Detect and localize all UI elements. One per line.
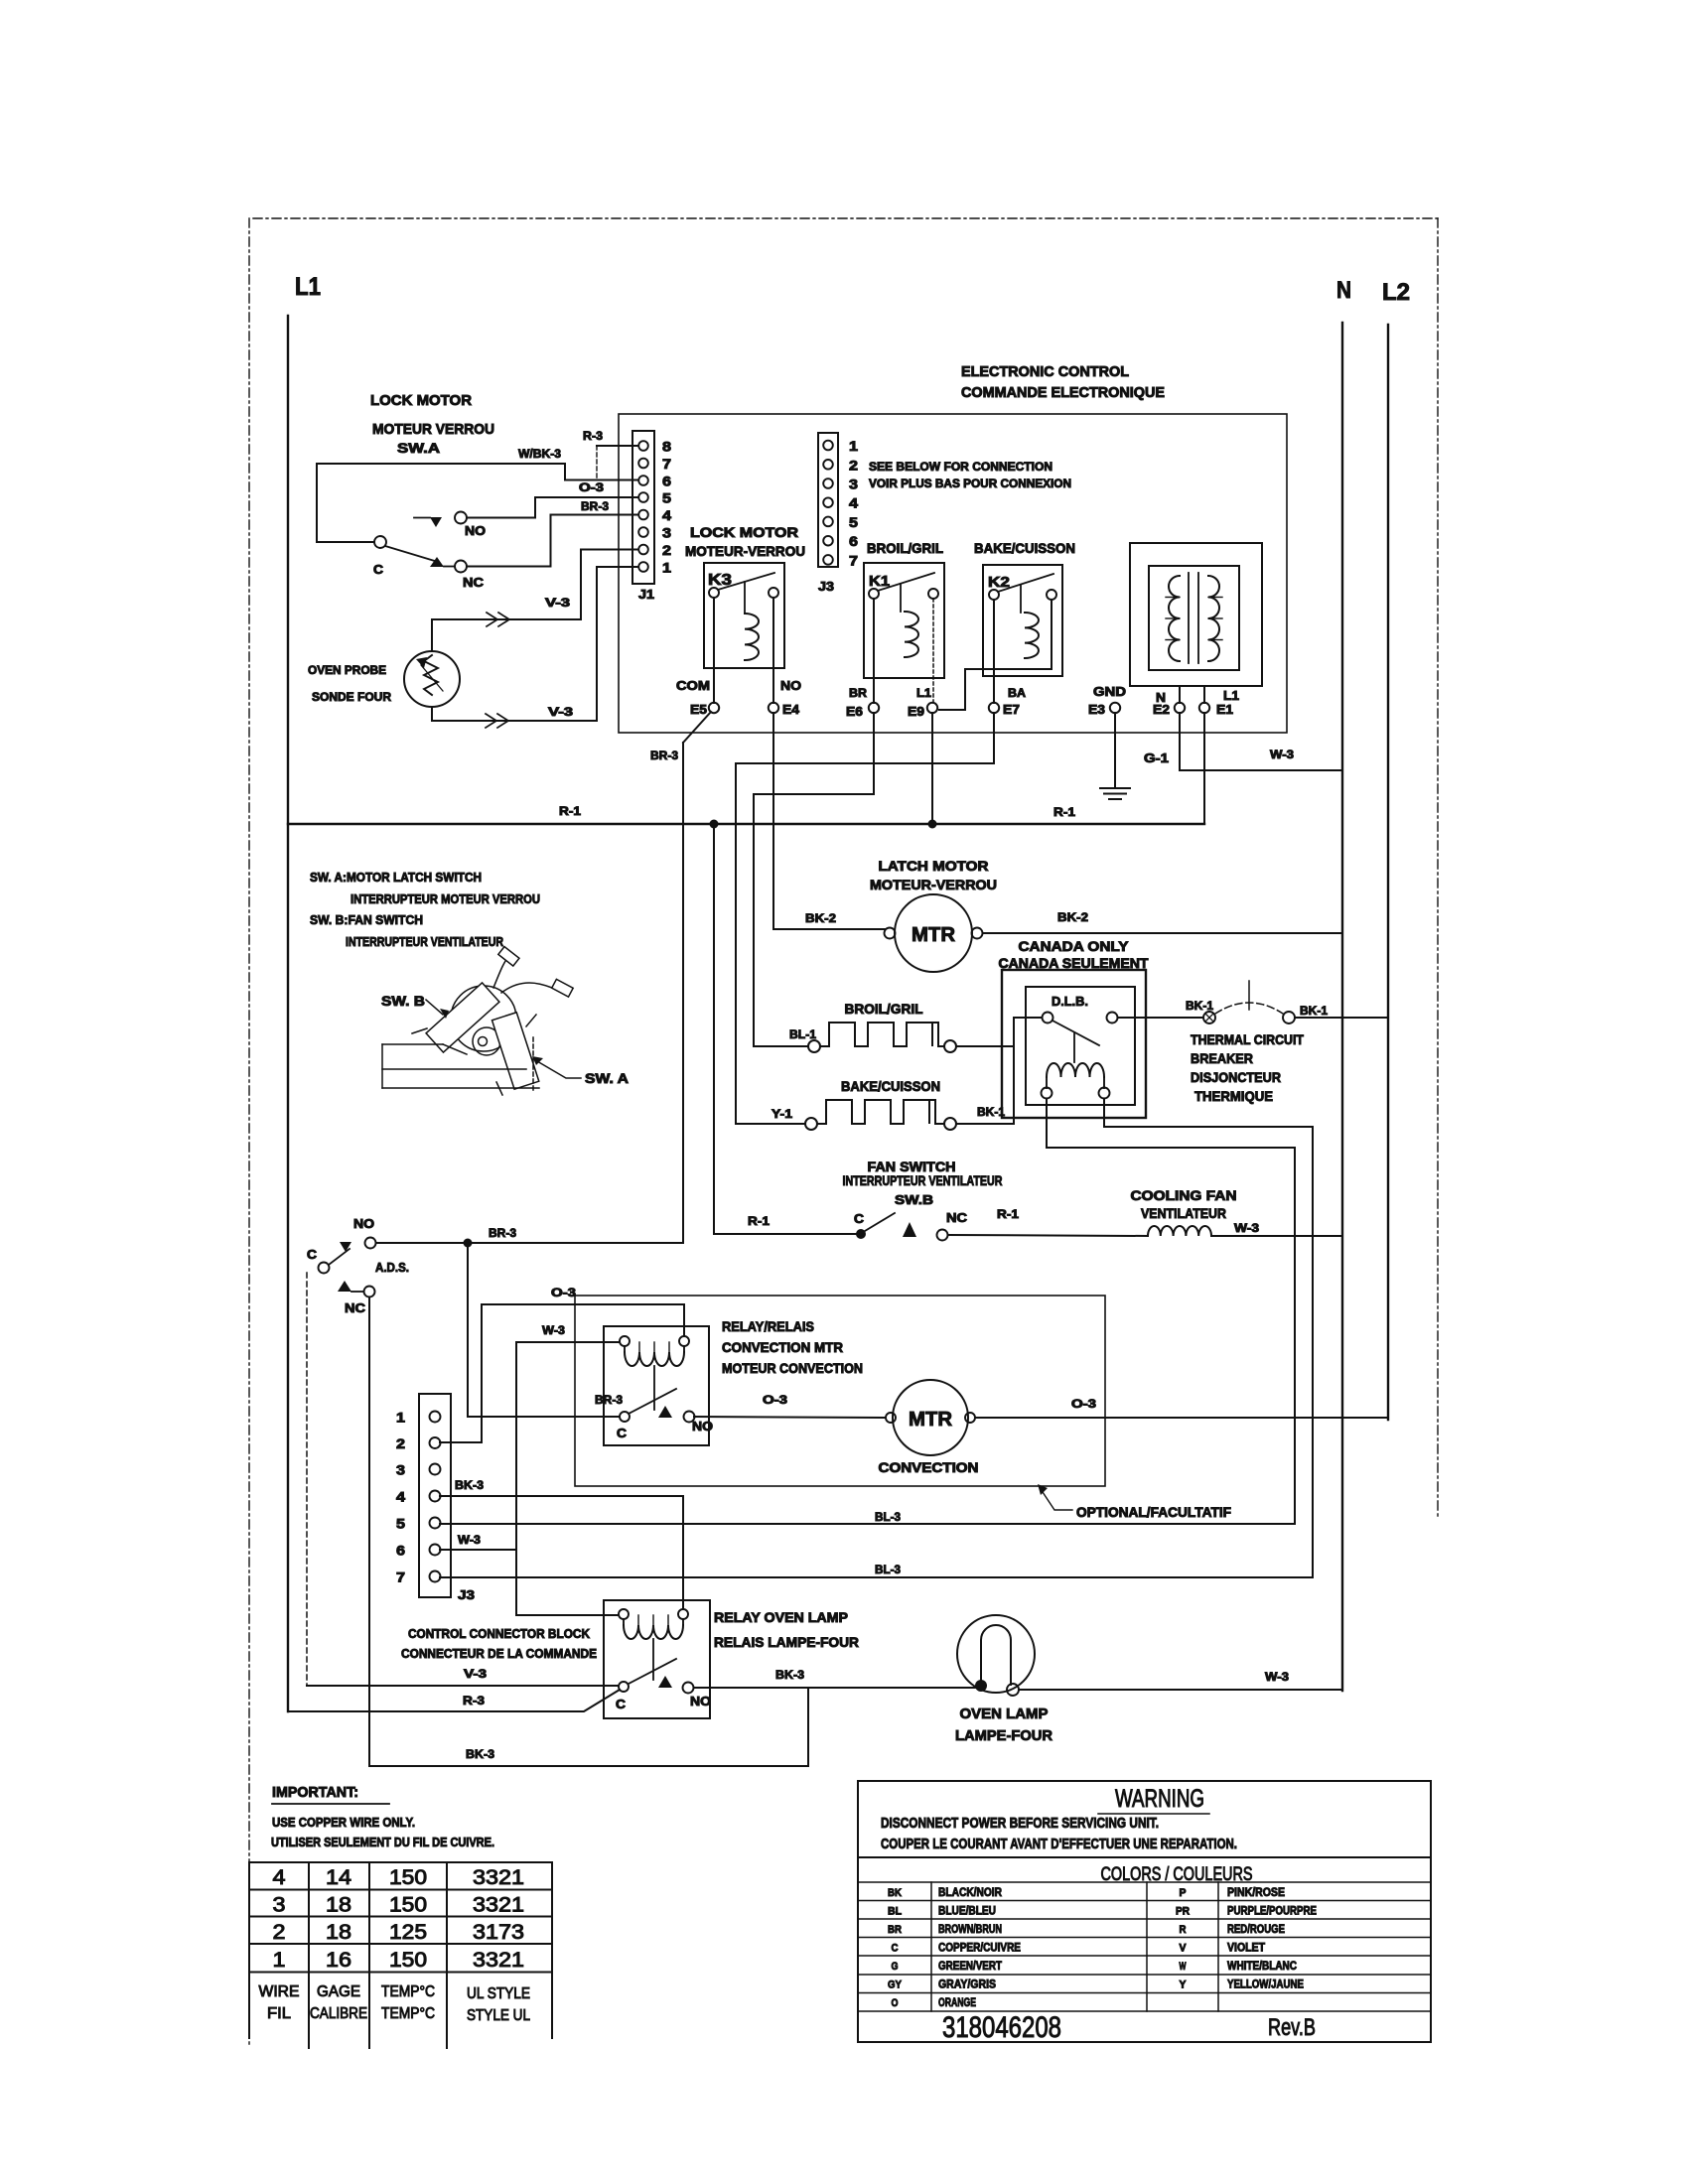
svg-text:NC: NC	[463, 575, 485, 590]
svg-text:RED/ROUGE: RED/ROUGE	[1227, 1922, 1285, 1936]
svg-text:2: 2	[662, 542, 671, 558]
wire transformer to E2	[1179, 686, 1181, 703]
svg-text:6: 6	[849, 533, 858, 549]
svg-text:MOTEUR-VERROU: MOTEUR-VERROU	[870, 877, 997, 892]
svg-text:COUPER LE COURANT AVANT D'EFFE: COUPER LE COURANT AVANT D'EFFECTUER UNE …	[881, 1836, 1237, 1852]
drawing latch assembly (pictorial)	[382, 947, 573, 1095]
wire BL-3 DLB coil right to connector pin 7	[440, 1099, 1313, 1577]
svg-text:V-3: V-3	[548, 705, 573, 719]
svg-text:THERMIQUE: THERMIQUE	[1194, 1088, 1273, 1104]
svg-text:BROWN/BRUN: BROWN/BRUN	[938, 1922, 1002, 1936]
svg-text:RELAY/RELAIS: RELAY/RELAIS	[722, 1318, 814, 1334]
svg-text:STYLE UL: STYLE UL	[467, 2007, 530, 2024]
wire W-3 E2 to N bus	[1180, 713, 1342, 770]
svg-text:W/BK-3: W/BK-3	[518, 447, 561, 461]
svg-text:18: 18	[326, 1921, 351, 1944]
page border (dash-dot frame)	[253, 217, 1438, 219]
svg-text:N: N	[1336, 277, 1351, 304]
wire K3 COM to E5	[713, 598, 715, 703]
svg-text:R-3: R-3	[463, 1694, 485, 1707]
wire BK-1 breaker to L2 bus	[1295, 1017, 1388, 1019]
wire K3 NO to E4	[772, 598, 774, 703]
svg-text:R-1: R-1	[1053, 805, 1075, 819]
relay convection motor	[604, 1326, 709, 1445]
svg-text:MOTEUR-VERROU: MOTEUR-VERROU	[685, 543, 805, 559]
svg-text:8: 8	[662, 439, 671, 455]
svg-text:BROIL/GRIL: BROIL/GRIL	[845, 1001, 923, 1017]
wire broil/bake riser to DLB COM	[956, 1045, 1014, 1047]
svg-text:L2: L2	[1382, 279, 1410, 306]
wire O-3 relay NO to convection motor	[694, 1417, 886, 1418]
svg-text:BR: BR	[888, 1924, 902, 1936]
thermal circuit breaker CB1	[1203, 1012, 1215, 1024]
svg-text:V-3: V-3	[545, 596, 570, 610]
svg-text:NC: NC	[946, 1210, 968, 1225]
box electronic control	[619, 414, 1287, 733]
svg-text:BLACK/NOIR: BLACK/NOIR	[938, 1885, 1002, 1899]
svg-text:BL: BL	[888, 1906, 902, 1918]
svg-text:3: 3	[396, 1462, 405, 1478]
svg-text:W-3: W-3	[1234, 1221, 1259, 1235]
svg-text:L1: L1	[1223, 688, 1239, 703]
svg-text:3321: 3321	[473, 1894, 524, 1917]
svg-text:WIRE: WIRE	[259, 1983, 300, 2000]
svg-text:SW. A:MOTOR LATCH SWITCH: SW. A:MOTOR LATCH SWITCH	[310, 870, 482, 885]
wire W-3 to convection relay coil left	[516, 1341, 620, 1343]
svg-text:G-1: G-1	[1144, 751, 1169, 765]
svg-text:BLUE/BLEU: BLUE/BLEU	[938, 1904, 996, 1918]
svg-text:BR-3: BR-3	[595, 1393, 623, 1407]
svg-text:MTR: MTR	[909, 1409, 953, 1431]
svg-text:J1: J1	[638, 587, 654, 602]
svg-text:SEE BELOW FOR CONNECTION: SEE BELOW FOR CONNECTION	[869, 460, 1052, 474]
svg-text:NO: NO	[353, 1216, 374, 1231]
wire O-3 from SW.A NO to J1 pin 5	[467, 497, 638, 518]
wire DLB to thermal breaker BK-1	[1118, 1017, 1203, 1019]
svg-text:NC: NC	[345, 1300, 366, 1315]
svg-text:3321: 3321	[473, 1866, 524, 1889]
svg-text:INTERRUPTEUR VENTILATEUR: INTERRUPTEUR VENTILATEUR	[843, 1172, 1003, 1188]
wire C to W/BK-3 riser	[317, 464, 374, 542]
svg-text:A.D.S.: A.D.S.	[375, 1260, 409, 1275]
connector J3 (control side)	[818, 433, 838, 567]
svg-text:O-3: O-3	[579, 480, 604, 494]
svg-text:RELAY OVEN LAMP: RELAY OVEN LAMP	[714, 1609, 848, 1625]
wire BK-2 latch motor to N bus	[983, 932, 1342, 934]
terminal E9	[927, 703, 937, 713]
svg-text:5: 5	[849, 514, 858, 530]
svg-text:D.L.B.: D.L.B.	[1052, 994, 1088, 1009]
wire BK-3 relay NO to oven lamp	[694, 1687, 976, 1689]
transformer T1	[1130, 543, 1262, 686]
svg-text:3: 3	[662, 525, 671, 541]
svg-text:3: 3	[273, 1894, 286, 1917]
svg-text:2: 2	[273, 1921, 286, 1944]
svg-text:OVEN LAMP: OVEN LAMP	[960, 1706, 1049, 1722]
svg-text:E4: E4	[782, 702, 800, 717]
svg-text:OVEN PROBE: OVEN PROBE	[308, 663, 386, 677]
svg-text:150: 150	[389, 1949, 427, 1972]
svg-text:5: 5	[396, 1516, 405, 1532]
svg-text:BK-1: BK-1	[1186, 999, 1213, 1013]
svg-text:NO: NO	[465, 523, 486, 538]
svg-text:CANADA SEULEMENT: CANADA SEULEMENT	[999, 955, 1149, 971]
svg-text:BR-3: BR-3	[489, 1226, 516, 1240]
svg-text:NO: NO	[692, 1419, 713, 1433]
svg-text:LOCK MOTOR: LOCK MOTOR	[370, 392, 472, 409]
wire E6 to broil element	[754, 713, 874, 1046]
svg-text:R-1: R-1	[559, 804, 581, 818]
junction dot R-1/fan feed	[710, 820, 719, 829]
svg-text:BL-1: BL-1	[789, 1027, 816, 1041]
svg-text:BA: BA	[1008, 686, 1026, 700]
relay oven lamp	[604, 1600, 710, 1718]
svg-text:SW. A: SW. A	[585, 1070, 629, 1086]
svg-text:INTERRUPTEUR VENTILATEUR: INTERRUPTEUR VENTILATEUR	[346, 934, 503, 949]
svg-text:1: 1	[662, 560, 671, 576]
component oven probe (thermistor)	[404, 651, 460, 707]
svg-text:150: 150	[389, 1894, 427, 1917]
svg-text:FIL: FIL	[267, 2005, 291, 2022]
wire K1 NO to E9 (dotted)	[932, 599, 934, 703]
svg-text:G: G	[892, 1961, 899, 1973]
svg-text:BK: BK	[888, 1887, 902, 1899]
wire W-3 oven lamp to N bus	[1019, 1689, 1342, 1691]
svg-text:E5: E5	[690, 702, 707, 717]
wire BK-3 pin4 to oven lamp relay coil	[440, 1496, 683, 1608]
svg-text:SW. B:FAN SWITCH: SW. B:FAN SWITCH	[310, 912, 423, 927]
svg-text:THERMAL CIRCUIT: THERMAL CIRCUIT	[1191, 1031, 1304, 1047]
svg-text:J3: J3	[458, 1587, 475, 1602]
wire BK-2 E4 to latch motor	[773, 713, 885, 929]
svg-text:VENTILATEUR: VENTILATEUR	[1141, 1205, 1226, 1221]
junction dot BR-3	[464, 1239, 473, 1248]
svg-text:GND: GND	[1093, 684, 1126, 699]
wire W/BK-3 from C to J1 pin 6	[317, 464, 638, 480]
svg-text:GY: GY	[888, 1979, 903, 1991]
terminal E1	[1199, 703, 1209, 713]
svg-text:IMPORTANT:: IMPORTANT:	[272, 1784, 358, 1801]
lamp oven lamp	[957, 1615, 1035, 1693]
svg-text:2: 2	[849, 457, 858, 473]
svg-text:LOCK MOTOR: LOCK MOTOR	[690, 524, 798, 540]
switch SW.A common terminal C	[374, 536, 386, 548]
chevrons on lower V-3	[486, 714, 496, 728]
wire transformer to E1	[1203, 686, 1205, 703]
junction dot R-1/E9	[928, 820, 937, 829]
svg-text:O-3: O-3	[763, 1393, 787, 1407]
wire K2 BA to E7	[993, 600, 995, 703]
svg-text:CANADA ONLY: CANADA ONLY	[1019, 938, 1130, 954]
wire O-3 convection motor to L2 bus	[975, 1418, 1388, 1420]
wire R-3 stub at J1 pin 8	[597, 445, 638, 447]
svg-text:3321: 3321	[473, 1949, 524, 1972]
svg-text:UL STYLE: UL STYLE	[467, 1985, 530, 2002]
svg-text:BL-3: BL-3	[875, 1510, 901, 1524]
svg-text:GAGE: GAGE	[317, 1983, 360, 2000]
connector J3 control connector block	[419, 1394, 451, 1597]
svg-text:BR-3: BR-3	[581, 499, 609, 513]
svg-text:4: 4	[396, 1489, 405, 1505]
svg-text:TEMP°C: TEMP°C	[381, 1983, 435, 2000]
svg-text:BK-2: BK-2	[1057, 910, 1088, 924]
svg-text:L1: L1	[916, 686, 931, 700]
svg-text:PINK/ROSE: PINK/ROSE	[1227, 1885, 1285, 1899]
svg-text:1: 1	[849, 438, 858, 454]
svg-text:W-3: W-3	[1265, 1670, 1289, 1684]
svg-text:CONTROL CONNECTOR BLOCK: CONTROL CONNECTOR BLOCK	[408, 1626, 591, 1641]
terminal E4	[769, 703, 778, 713]
svg-text:V-3: V-3	[464, 1667, 487, 1681]
svg-text:BK-1: BK-1	[977, 1105, 1005, 1119]
svg-text:3173: 3173	[473, 1921, 524, 1944]
svg-text:C: C	[617, 1426, 628, 1440]
wire L1 rail (left vertical bus)	[287, 316, 289, 1711]
svg-text:3: 3	[849, 477, 858, 492]
svg-text:BL-3: BL-3	[875, 1563, 901, 1576]
table wire gage	[249, 1861, 552, 1863]
svg-text:COM: COM	[676, 678, 710, 693]
svg-text:7: 7	[849, 552, 858, 568]
wire V-3 to oven lamp relay C	[307, 1685, 619, 1687]
svg-text:J3: J3	[818, 579, 834, 594]
svg-text:L1: L1	[295, 273, 321, 301]
svg-text:R-1: R-1	[748, 1214, 770, 1228]
svg-text:SONDE FOUR: SONDE FOUR	[312, 690, 391, 704]
wire BR-3 from E5 down to A.D.S. NO line	[683, 712, 711, 743]
svg-text:LATCH MOTOR: LATCH MOTOR	[879, 858, 989, 874]
wire R-1 fan switch NC to cooling fan	[948, 1235, 1148, 1236]
svg-text:E9: E9	[908, 704, 924, 719]
wire W-3 to oven lamp relay coil left	[516, 1614, 619, 1616]
svg-text:W-3: W-3	[542, 1323, 565, 1337]
svg-text:BR: BR	[849, 686, 867, 700]
svg-text:GREEN/VERT: GREEN/VERT	[938, 1959, 1003, 1973]
svg-text:4: 4	[273, 1866, 286, 1889]
svg-text:COMMANDE ELECTRONIQUE: COMMANDE ELECTRONIQUE	[961, 384, 1165, 401]
box warning	[858, 1781, 1431, 2042]
svg-text:VIOLET: VIOLET	[1227, 1941, 1266, 1955]
svg-text:DISCONNECT POWER BEFORE SERVIC: DISCONNECT POWER BEFORE SERVICING UNIT.	[881, 1815, 1159, 1832]
svg-text:6: 6	[662, 474, 671, 489]
wire E7 to bake element	[736, 713, 994, 1124]
wire E9 to R-1 bus	[931, 713, 933, 824]
switch SW.A arm	[385, 546, 438, 562]
terminal E6	[869, 703, 879, 713]
wire V-3 probe bottom to J1 pin 1	[432, 567, 638, 721]
svg-text:BK-3: BK-3	[466, 1747, 494, 1761]
svg-text:E6: E6	[846, 704, 863, 719]
svg-text:4: 4	[849, 495, 858, 511]
svg-text:R-3: R-3	[583, 429, 603, 443]
svg-text:V: V	[1180, 1943, 1188, 1955]
connector J1	[632, 431, 654, 584]
svg-text:318046208: 318046208	[942, 2011, 1061, 2044]
wire V-3 probe top to J1 pin 2	[432, 550, 638, 652]
wire K2 L1 to E9 jog	[939, 600, 1052, 710]
wire E1 down to R-1 bus	[1203, 713, 1205, 824]
svg-text:Rev.B: Rev.B	[1268, 2014, 1316, 2041]
svg-text:MOTEUR CONVECTION: MOTEUR CONVECTION	[722, 1360, 863, 1376]
svg-text:PR: PR	[1176, 1906, 1190, 1918]
wire W-3 cooling fan to N bus	[1211, 1235, 1342, 1237]
wire BL-3 DLB coil left to connector pin 5	[440, 1099, 1295, 1524]
svg-text:DISJONCTEUR: DISJONCTEUR	[1191, 1069, 1281, 1085]
box optional convection	[575, 1296, 1105, 1486]
svg-text:R: R	[1180, 1924, 1187, 1936]
svg-text:TEMP°C: TEMP°C	[381, 2005, 435, 2022]
wire O-3 connector pin2 to convection relay coil	[440, 1304, 684, 1442]
chevrons on upper V-3	[487, 613, 497, 626]
svg-text:BROIL/GRIL: BROIL/GRIL	[867, 540, 943, 556]
svg-text:BAKE/CUISSON: BAKE/CUISSON	[841, 1078, 940, 1094]
wire K1 COM to E6	[873, 599, 875, 703]
svg-text:18: 18	[326, 1894, 351, 1917]
svg-text:MTR: MTR	[912, 924, 956, 946]
switch SW.A NC contact	[430, 557, 444, 567]
svg-text:ORANGE: ORANGE	[938, 1995, 976, 2009]
svg-text:W: W	[1180, 1961, 1187, 1973]
svg-text:BK-3: BK-3	[775, 1668, 804, 1682]
wire R-1 bus horizontal	[288, 823, 1204, 825]
svg-text:O-3: O-3	[551, 1286, 576, 1299]
svg-text:ELECTRONIC CONTROL: ELECTRONIC CONTROL	[961, 363, 1129, 380]
svg-text:125: 125	[389, 1921, 427, 1944]
wire bake right to DLB riser	[956, 1123, 1014, 1125]
svg-text:RELAIS LAMPE-FOUR: RELAIS LAMPE-FOUR	[714, 1634, 859, 1650]
svg-text:UTILISER SEULEMENT DU FIL DE C: UTILISER SEULEMENT DU FIL DE CUIVRE.	[271, 1835, 494, 1849]
svg-text:6: 6	[396, 1543, 405, 1559]
terminal E7	[989, 703, 999, 713]
svg-text:4: 4	[662, 507, 671, 523]
svg-text:BAKE/CUISSON: BAKE/CUISSON	[974, 540, 1075, 556]
svg-text:GRAY/GRIS: GRAY/GRIS	[938, 1978, 996, 1991]
svg-text:W-3: W-3	[458, 1533, 481, 1547]
svg-text:2: 2	[396, 1435, 405, 1451]
svg-text:14: 14	[326, 1866, 351, 1889]
svg-text:CONVECTION MTR: CONVECTION MTR	[722, 1339, 843, 1355]
svg-text:NO: NO	[690, 1694, 711, 1708]
wire R-1 from bus dot to fan switch C	[714, 824, 856, 1234]
svg-text:7: 7	[662, 456, 671, 472]
svg-text:SW.A: SW.A	[397, 440, 440, 456]
svg-text:USE COPPER WIRE ONLY.: USE COPPER WIRE ONLY.	[272, 1815, 415, 1830]
switch SW.A NO contact	[430, 517, 442, 527]
svg-text:BK-1: BK-1	[1300, 1004, 1328, 1018]
svg-text:5: 5	[662, 490, 671, 506]
wire A.D.S. C to oven lamp relay V-3 (dashed)	[306, 1273, 308, 1686]
svg-text:C: C	[892, 1943, 899, 1955]
terminal E5	[709, 703, 719, 713]
svg-text:SW.B: SW.B	[895, 1192, 933, 1207]
svg-text:BR-3: BR-3	[650, 749, 678, 762]
svg-text:C: C	[307, 1247, 318, 1262]
svg-text:E1: E1	[1216, 702, 1233, 717]
wire L2 bus (vertical)	[1387, 325, 1389, 1420]
svg-text:150: 150	[389, 1866, 427, 1889]
svg-text:C: C	[373, 562, 384, 577]
svg-text:BK-2: BK-2	[805, 911, 836, 925]
svg-text:N: N	[1156, 690, 1166, 705]
terminal E3	[1110, 703, 1120, 713]
svg-text:WARNING: WARNING	[1115, 1785, 1204, 1813]
table colors	[858, 1881, 1431, 1883]
svg-text:P: P	[1180, 1887, 1187, 1899]
svg-text:MOTEUR VERROU: MOTEUR VERROU	[372, 421, 494, 438]
svg-text:COPPER/CUIVRE: COPPER/CUIVRE	[938, 1941, 1021, 1955]
svg-text:C: C	[616, 1697, 627, 1711]
ground G-1 from E3	[1114, 713, 1116, 788]
svg-text:16: 16	[326, 1949, 351, 1972]
svg-text:NO: NO	[780, 678, 801, 693]
svg-text:E3: E3	[1088, 702, 1105, 717]
svg-text:BREAKER: BREAKER	[1191, 1050, 1253, 1066]
svg-text:1: 1	[396, 1410, 405, 1426]
svg-text:CALIBRE: CALIBRE	[310, 2005, 367, 2022]
svg-text:CONVECTION: CONVECTION	[879, 1459, 979, 1475]
label optional/facultatif with leader	[1043, 1492, 1072, 1510]
relay D.L.B.	[1026, 987, 1135, 1105]
svg-text:INTERRUPTEUR MOTEUR VERROU: INTERRUPTEUR MOTEUR VERROU	[351, 891, 540, 906]
motor convection MTR	[893, 1380, 968, 1455]
wire W-3 pin6 riser to both relay coils	[440, 1549, 516, 1551]
wire BR-3 A.D.S. NO line	[376, 1242, 683, 1244]
svg-text:VOIR PLUS BAS POUR CONNEXION: VOIR PLUS BAS POUR CONNEXION	[869, 477, 1071, 490]
svg-text:E7: E7	[1003, 702, 1020, 717]
wire BR-3 from SW.A NC to J1 pin 4	[467, 515, 638, 567]
wire R-3 from L1 rail to relay C	[288, 1690, 620, 1711]
svg-text:BK-3: BK-3	[455, 1478, 484, 1492]
svg-text:O-3: O-3	[1071, 1397, 1096, 1411]
wire BK-3 A.D.S. NC to lamp feed	[369, 1297, 808, 1766]
svg-text:7: 7	[396, 1570, 405, 1585]
wire N bus (vertical)	[1341, 323, 1343, 1691]
svg-text:YELLOW/JAUNE: YELLOW/JAUNE	[1227, 1978, 1304, 1991]
svg-text:COOLING FAN: COOLING FAN	[1131, 1187, 1237, 1203]
svg-text:W-3: W-3	[1270, 748, 1294, 761]
svg-text:Y-1: Y-1	[772, 1107, 792, 1121]
svg-text:Y: Y	[1180, 1979, 1188, 1991]
svg-text:O: O	[892, 1997, 899, 2009]
wire BR-3 dot to convection relay C	[468, 1243, 619, 1417]
svg-text:PURPLE/POURPRE: PURPLE/POURPRE	[1227, 1904, 1317, 1918]
svg-text:LAMPE-FOUR: LAMPE-FOUR	[955, 1727, 1052, 1744]
svg-text:SW. B: SW. B	[381, 993, 425, 1009]
svg-text:OPTIONAL/FACULTATIF: OPTIONAL/FACULTATIF	[1076, 1504, 1231, 1520]
svg-text:WHITE/BLANC: WHITE/BLANC	[1227, 1959, 1297, 1973]
svg-text:1: 1	[273, 1949, 286, 1972]
svg-text:CONNECTEUR DE LA COMMANDE: CONNECTEUR DE LA COMMANDE	[401, 1646, 597, 1661]
svg-text:R-1: R-1	[997, 1207, 1019, 1221]
svg-text:C: C	[854, 1211, 865, 1226]
terminal E2	[1175, 703, 1185, 713]
